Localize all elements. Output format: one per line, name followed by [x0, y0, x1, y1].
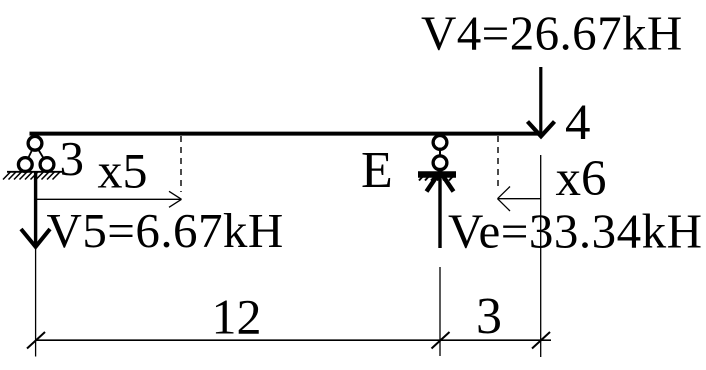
force V5 arrow (thick, downward) [21, 173, 50, 247]
svg-text:12: 12 [212, 289, 262, 345]
left extension line [35, 247, 37, 357]
svg-text:x6: x6 [556, 151, 607, 207]
dimension tick middle [432, 332, 450, 349]
dimension tick left [27, 332, 45, 349]
force V4 arrow (thick, downward) [528, 67, 555, 136]
svg-text:V4=26.67kH: V4=26.67kH [421, 6, 683, 61]
svg-text:3: 3 [60, 131, 85, 186]
right extension line [540, 155, 542, 357]
x5 arrow (thin, rightward) [36, 191, 182, 207]
middle extension line [439, 267, 441, 356]
dimension line [36, 339, 552, 341]
dimension tick right [532, 332, 550, 349]
svg-text:V5=6.67kH: V5=6.67kH [47, 203, 284, 258]
support E (hinged support) [418, 136, 456, 181]
beam [30, 132, 543, 136]
x6 arrow (thin, leftward) [498, 187, 541, 212]
svg-text:4: 4 [565, 95, 591, 151]
dashed line left [180, 136, 182, 192]
svg-text:3: 3 [476, 288, 502, 345]
svg-text:x5: x5 [98, 143, 148, 199]
svg-text:Ve=33.34kH: Ve=33.34kH [448, 204, 702, 259]
dashed line right [497, 136, 499, 191]
reaction Ve arrow (thick, upward) [427, 172, 454, 249]
svg-text:E: E [361, 142, 393, 199]
support 3 (left roller support) [3, 136, 62, 179]
